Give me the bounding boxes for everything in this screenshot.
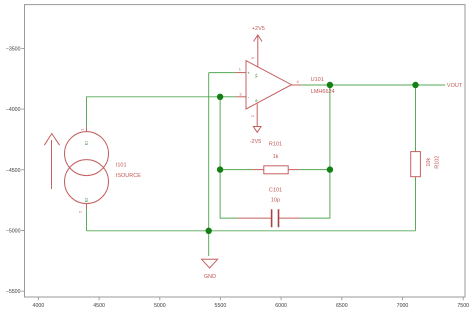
capacitor C101 left lead [238,217,272,219]
resistor R101 left lead [253,169,264,171]
wire R102 bottom to ground rail [415,177,417,231]
capacitor C101 right lead [279,217,301,219]
wire op-amp pin 1 to ground, vertical [208,73,210,231]
svg-text:−4000: −4000 [6,107,21,113]
wire R101 left lead connection [220,169,253,171]
op-amp pin 4 stub [292,84,302,86]
current source I101 top pin stub [86,127,88,132]
wire inverting node vertical to C101 left [220,97,237,218]
svg-text:U101: U101 [311,77,324,83]
svg-text:R102: R102 [435,156,441,169]
op-amp U101 triangle [246,61,292,109]
current source I101 top circle [65,132,109,176]
svg-text:V+: V+ [255,73,259,77]
resistor R101 body [264,166,288,174]
junction inverting node [217,94,223,100]
y axis ticks [21,48,24,291]
wire op-amp output row to VOUT [301,84,445,86]
svg-text:E1: E1 [85,141,89,145]
current source I101 bottom circle [65,160,109,204]
svg-text:-2V5: -2V5 [250,139,262,145]
op-amp pin 5 stub and +2V5 power arrow [254,35,262,67]
svg-text:ISOURCE: ISOURCE [116,173,141,179]
svg-text:4000: 4000 [33,303,45,309]
wire GND stub [208,231,210,256]
junction op-amp output [327,82,333,88]
wire ground rail [87,230,416,232]
svg-text:10k: 10k [426,158,432,167]
svg-text:E2: E2 [85,198,89,202]
wire ISOURCE top to inverting node [87,97,221,127]
svg-text:C101: C101 [269,188,282,194]
svg-text:LMH6624: LMH6624 [311,89,335,95]
wire inverting node to op-amp pin 3 [220,96,236,98]
junction VOUT / R102 [412,82,418,88]
junction ground rail [206,228,212,234]
wire R101 right lead connection [299,169,330,171]
svg-text:−5500: −5500 [6,289,21,295]
svg-text:5000: 5000 [154,303,166,309]
svg-text:6000: 6000 [275,303,287,309]
svg-text:I101: I101 [116,163,127,169]
resistor R101 right lead [288,169,299,171]
op-amp pin 2 stub and -2V5 power arrow [253,103,261,132]
svg-text:7500: 7500 [457,303,469,309]
ground symbol triangle [202,259,218,268]
junction R101 left [217,166,223,172]
op-amp pin 1 stub [236,72,246,74]
svg-text:+2V5: +2V5 [252,26,265,32]
wire op-amp pin 1 to ground, horizontal [209,72,236,74]
svg-text:−5000: −5000 [6,229,21,235]
svg-text:VOUT: VOUT [447,83,463,89]
resistor R102 body [411,152,421,177]
svg-text:−4500: −4500 [6,168,21,174]
svg-text:4500: 4500 [93,303,105,309]
svg-text:R101: R101 [269,142,282,148]
svg-text:10p: 10p [271,197,280,203]
junction R101 right [327,166,333,172]
x axis ticks [38,297,463,300]
svg-text:+: + [247,70,250,75]
svg-text:6500: 6500 [336,303,348,309]
op-amp pin 3 stub [236,96,246,98]
current source I101 bottom pin stub [86,204,88,209]
svg-text:7000: 7000 [397,303,409,309]
wire R102 top [415,85,417,152]
svg-text:−3500: −3500 [6,46,21,52]
capacitor C101 plates [272,209,279,227]
wire output node vertical to C101 right [300,85,330,218]
current source direction arrow [44,134,59,189]
svg-text:1k: 1k [273,154,279,160]
svg-text:GND: GND [204,274,216,280]
svg-text:5500: 5500 [215,303,227,309]
wire ISOURCE bottom to ground rail [86,209,88,231]
